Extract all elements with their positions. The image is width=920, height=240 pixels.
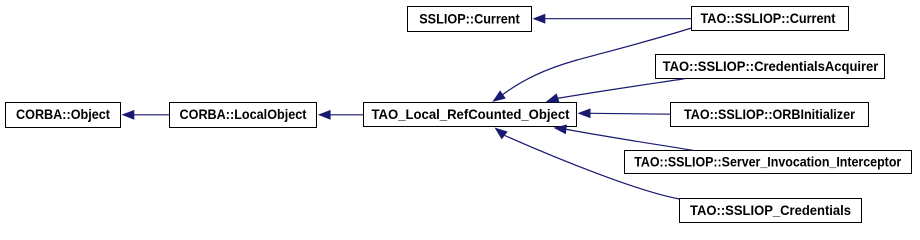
inheritance arrow TAO_Local_RefCounted_Object to CORBA::LocalObject [318,110,364,120]
class box SSLIOP::Current [408,7,532,32]
inheritance arrow CORBA::LocalObject to CORBA::Object [122,110,170,120]
svg-text:CORBA::LocalObject: CORBA::LocalObject [180,106,307,122]
inheritance arrow TAO::SSLIOP_Credentials to TAO_Local_RefCounted_Object [495,128,680,200]
class box TAO::SSLIOP::CredentialsAcquirer [656,55,885,79]
inheritance arrow TAO::SSLIOP::Server_Invocation_Interceptor to TAO_Local_RefCounted_Object [554,125,694,151]
svg-text:CORBA::Object: CORBA::Object [16,106,110,122]
svg-text:TAO::SSLIOP::Current: TAO::SSLIOP::Current [701,10,836,26]
class box TAO::SSLIOP::Server_Invocation_Interceptor [625,151,912,174]
inheritance arrow TAO::SSLIOP::Current to TAO_Local_RefCounted_Object [492,28,691,102]
class box CORBA::LocalObject [170,103,317,128]
svg-text:TAO_Local_RefCounted_Object: TAO_Local_RefCounted_Object [372,106,570,122]
svg-text:SSLIOP::Current: SSLIOP::Current [419,10,520,26]
class box TAO::SSLIOP::ORBInitializer [671,103,869,127]
class box TAO::SSLIOP_Credentials [680,199,862,223]
inheritance arrow TAO::SSLIOP::ORBInitializer to TAO_Local_RefCounted_Object [578,108,671,118]
svg-text:TAO::SSLIOP_Credentials: TAO::SSLIOP_Credentials [690,202,851,218]
class box TAO_Local_RefCounted_Object [364,103,577,127]
svg-text:TAO::SSLIOP::Server_Invocation: TAO::SSLIOP::Server_Invocation_Intercept… [634,154,901,170]
inheritance arrow TAO::SSLIOP::Current to SSLIOP::Current [533,14,692,24]
class box CORBA::Object [6,103,121,128]
inheritance arrow TAO::SSLIOP::CredentialsAcquirer to TAO_Local_RefCounted_Object [546,79,686,103]
svg-text:TAO::SSLIOP::CredentialsAcquir: TAO::SSLIOP::CredentialsAcquirer [663,58,879,74]
svg-text:TAO::SSLIOP::ORBInitializer: TAO::SSLIOP::ORBInitializer [684,106,855,122]
class box TAO::SSLIOP::Current [692,7,849,31]
